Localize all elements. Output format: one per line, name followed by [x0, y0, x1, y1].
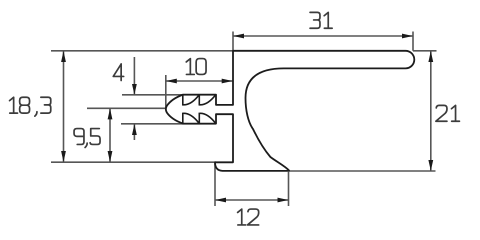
dimension line 18,3 — [63, 51, 65, 162]
arrow 31 right — [402, 34, 413, 39]
extension line top-right (21 upper datum) — [413, 50, 437, 52]
arrow 10 right — [222, 79, 233, 84]
label 12 — [238, 209, 259, 225]
barb tooth top 2 — [199, 95, 216, 105]
extension line bottom-right (21 lower datum) — [289, 170, 436, 172]
extension line top-left (18,3 upper datum) — [51, 50, 233, 52]
barb tooth bottom 1 — [183, 113, 200, 123]
arrow 21 down — [428, 160, 433, 171]
extension line 31 left — [232, 32, 234, 51]
extension line tongue top (4 upper datum) — [122, 94, 216, 96]
label 18,3 — [10, 97, 51, 116]
extension line baseline-left (18,3 / 9,5 lower datum) — [51, 161, 216, 163]
extension line tongue bottom (4 lower datum) — [121, 123, 216, 125]
profile body outline — [166, 51, 414, 171]
extension line 12 left — [214, 163, 216, 206]
label 4 — [113, 64, 123, 81]
label 9,5 — [74, 129, 100, 148]
arrow 31 left — [233, 34, 244, 39]
extension line 12 right — [288, 172, 290, 206]
label 21 — [436, 105, 460, 121]
arrow 12 left — [215, 198, 226, 203]
label 31 — [310, 12, 332, 28]
barb tooth top 1 — [183, 95, 200, 105]
extension line 10 left — [165, 75, 167, 108]
dimension line 12 — [215, 199, 289, 201]
arrow 21 up — [428, 51, 433, 62]
dimension line 9,5 — [109, 108, 111, 162]
dimension line 21 — [430, 51, 432, 171]
arrow 10 left — [166, 79, 177, 84]
arrow 18,3 up — [61, 51, 66, 62]
dimension line 4 upper leader — [133, 57, 135, 95]
label 10 — [186, 59, 206, 75]
arrow 12 right — [278, 198, 289, 203]
arrow 4 up — [132, 124, 137, 135]
arrow 9,5 up — [108, 108, 113, 119]
extension line 31 right — [412, 32, 414, 51]
dimension line 31 — [233, 35, 413, 37]
dimension line 4 lower leader — [133, 124, 135, 140]
extension line tongue centre (9,5 upper datum) — [87, 107, 166, 109]
arrow 9,5 down — [108, 151, 113, 162]
dimension line 10 — [166, 80, 233, 82]
barb tooth bottom 2 — [199, 113, 216, 123]
arrow 4 down — [132, 84, 137, 95]
arrow 18,3 down — [61, 151, 66, 162]
